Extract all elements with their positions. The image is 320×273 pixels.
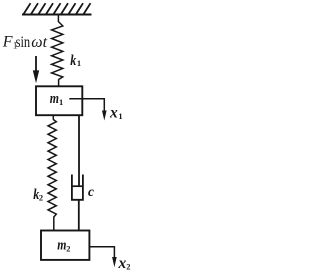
svg-text:2: 2 (66, 243, 70, 253)
svg-text:x: x (118, 255, 127, 272)
svg-text:k: k (70, 53, 76, 69)
svg-text:1: 1 (118, 111, 122, 121)
svg-text:ωt: ωt (31, 34, 47, 51)
svg-text:2: 2 (39, 192, 43, 202)
svg-text:m: m (50, 91, 59, 107)
svg-text:F: F (2, 34, 13, 51)
svg-text:sin: sin (16, 34, 31, 51)
svg-text:m: m (57, 238, 66, 254)
svg-text:1: 1 (77, 58, 81, 68)
svg-text:1: 1 (59, 97, 63, 107)
svg-text:x: x (109, 104, 118, 121)
svg-text:c: c (88, 184, 94, 199)
svg-text:2: 2 (126, 261, 130, 271)
